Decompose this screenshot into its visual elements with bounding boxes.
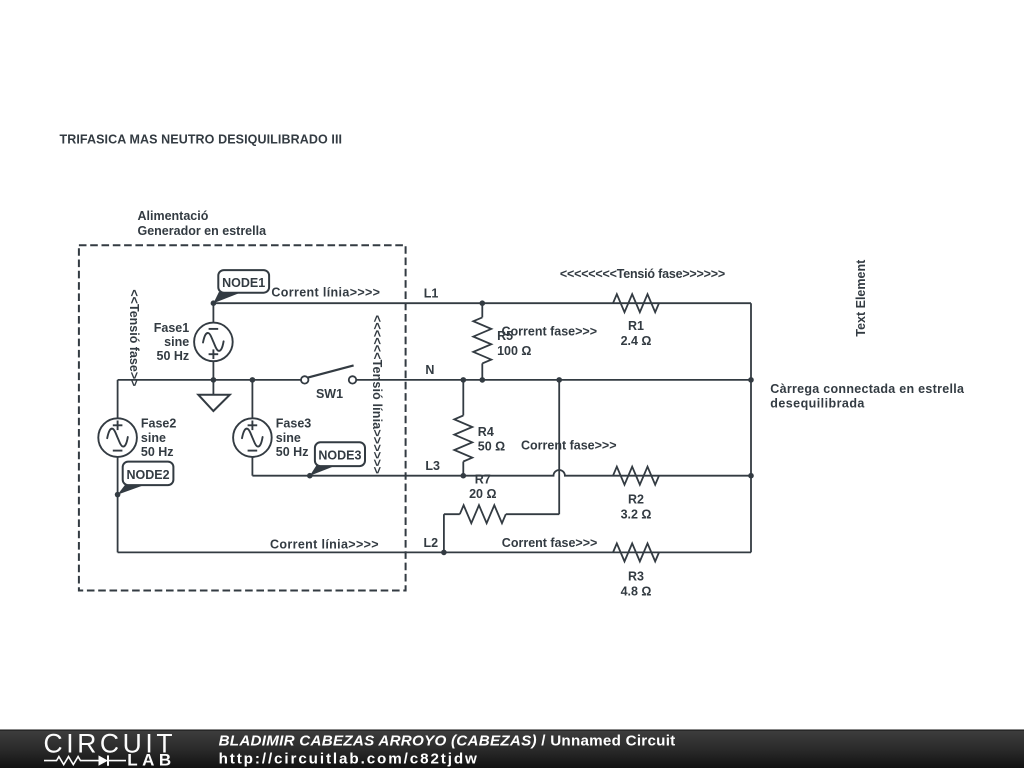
wire L2 horizontal	[118, 551, 751, 553]
wire R7 right stem	[506, 513, 559, 515]
junction L2/R7	[441, 550, 447, 556]
svg-text:50 Hz: 50 Hz	[276, 445, 309, 459]
node label NODE1	[213, 270, 269, 303]
svg-text:Corrent línia>>>>: Corrent línia>>>>	[271, 286, 380, 300]
junction N/vertical	[556, 377, 562, 383]
svg-text:sine: sine	[164, 335, 189, 349]
svg-text:Corrent línia>>>>: Corrent línia>>>>	[270, 537, 379, 551]
wire Fase3 top stem	[251, 380, 253, 419]
junction L3/right rail	[748, 473, 754, 479]
svg-text:R4: R4	[478, 425, 494, 439]
wire left rail upper (N corner to Fase2 top)	[117, 380, 119, 419]
svg-text:Alimentació: Alimentació	[138, 209, 209, 223]
svg-text:L1: L1	[424, 287, 439, 301]
wire R5 top stem	[481, 303, 483, 317]
svg-text:Càrrega connectada en estrella: Càrrega connectada en estrella	[770, 382, 965, 396]
wire vertical N-to-R7 (passes under hop)	[558, 380, 560, 514]
svg-text:<<<<<<<<Tensió fase>>>>>>: <<<<<<<<Tensió fase>>>>>>	[560, 267, 725, 281]
svg-text:L2: L2	[424, 536, 439, 550]
wire Fase3 bottom stem	[251, 457, 253, 476]
junction L3/NODE3	[307, 473, 313, 479]
wire right rail vertical	[750, 303, 752, 552]
junction L1/Fase1/NODE1	[211, 300, 217, 306]
voltage source Fase1	[194, 323, 233, 362]
svg-text:4.8 Ω: 4.8 Ω	[621, 584, 652, 598]
wire N right segment	[356, 379, 751, 381]
wire R4 top stem	[462, 380, 464, 416]
junction L3/R4	[461, 473, 467, 479]
svg-text:R1: R1	[628, 319, 644, 333]
resistor R2 zigzag	[613, 467, 659, 485]
svg-text:<<Tensió fase>>: <<Tensió fase>>	[127, 289, 141, 386]
wire L3 left segment	[252, 470, 751, 476]
svg-text:NODE1: NODE1	[222, 276, 265, 290]
wire Fase1 bottom stem	[212, 361, 214, 380]
svg-text:sine: sine	[141, 431, 166, 445]
svg-text:Corrent fase>>>: Corrent fase>>>	[521, 439, 617, 453]
resistor R5 zigzag	[473, 317, 491, 363]
junction L1/R5	[480, 300, 486, 306]
ground symbol	[198, 380, 230, 411]
CircuitLab logo: wire with resistor	[44, 757, 99, 765]
node label NODE2	[118, 462, 174, 495]
junction NODE2	[115, 492, 121, 498]
junction N/Fase3	[250, 377, 256, 383]
svg-text:SW1: SW1	[316, 387, 343, 401]
resistor R3 zigzag	[613, 543, 659, 561]
voltage source Fase3	[233, 418, 272, 457]
svg-text:NODE2: NODE2	[126, 468, 169, 482]
svg-text:LAB: LAB	[127, 751, 175, 768]
svg-text:R3: R3	[628, 569, 644, 583]
junction N/R5	[480, 377, 486, 383]
svg-text:NODE3: NODE3	[318, 449, 361, 463]
wire N left segment	[118, 379, 301, 381]
node label NODE3	[310, 442, 365, 475]
voltage source Fase2	[98, 418, 137, 457]
svg-text:http://circuitlab.com/c82tjdw: http://circuitlab.com/c82tjdw	[219, 750, 479, 767]
svg-text:Generador en estrella: Generador en estrella	[138, 224, 268, 238]
svg-text:L3: L3	[425, 459, 440, 473]
svg-text:Text Element: Text Element	[854, 259, 868, 337]
resistor R4 zigzag	[454, 416, 472, 462]
svg-text:<<<<<<Tensió línia>>>>>>: <<<<<<Tensió línia>>>>>>	[370, 315, 384, 474]
wire R7 left vertical to L2	[443, 514, 445, 552]
junction N/Fase1/ground	[211, 377, 217, 383]
svg-text:20 Ω: 20 Ω	[469, 487, 496, 501]
wire left rail lower (Fase2 bottom to L2)	[117, 457, 119, 553]
svg-text:Corrent fase>>>: Corrent fase>>>	[502, 536, 598, 550]
CircuitLab logo: diode symbol	[99, 755, 109, 765]
svg-text:100 Ω: 100 Ω	[497, 344, 531, 358]
svg-text:Fase2: Fase2	[141, 417, 176, 431]
wire R5 bottom stem	[481, 363, 483, 380]
resistor R7 zigzag	[460, 505, 506, 523]
junction N/R4	[461, 377, 467, 383]
svg-text:desequilibrada: desequilibrada	[770, 397, 865, 411]
switch SW1	[301, 365, 356, 383]
svg-text:Fase3: Fase3	[276, 417, 311, 431]
junction N/right rail	[748, 377, 754, 383]
svg-text:50 Hz: 50 Hz	[157, 349, 190, 363]
svg-text:2.4 Ω: 2.4 Ω	[621, 334, 652, 348]
svg-text:BLADIMIR CABEZAS ARROYO (CABEZ: BLADIMIR CABEZAS ARROYO (CABEZAS) / Unna…	[219, 733, 676, 750]
svg-text:R2: R2	[628, 493, 644, 507]
svg-text:sine: sine	[276, 431, 301, 445]
svg-text:N: N	[425, 363, 434, 377]
footer bar background	[0, 730, 1024, 768]
svg-text:Fase1: Fase1	[154, 321, 189, 335]
wire R4 bottom stem	[462, 462, 464, 476]
svg-text:50 Ω: 50 Ω	[478, 440, 505, 454]
svg-text:TRIFASICA MAS NEUTRO DESIQUILI: TRIFASICA MAS NEUTRO DESIQUILIBRADO III	[60, 133, 343, 147]
wire R7 left stem	[444, 513, 460, 515]
svg-text:R7: R7	[475, 472, 491, 486]
svg-text:Corrent fase>>>: Corrent fase>>>	[502, 325, 598, 339]
svg-text:50 Hz: 50 Hz	[141, 445, 174, 459]
resistor R1 zigzag	[613, 294, 659, 312]
svg-text:3.2 Ω: 3.2 Ω	[621, 508, 652, 522]
wire L1 horizontal	[213, 302, 751, 304]
dashed boundary box (Alimentació group)	[79, 245, 406, 590]
wire Fase1 top stem	[212, 303, 214, 323]
